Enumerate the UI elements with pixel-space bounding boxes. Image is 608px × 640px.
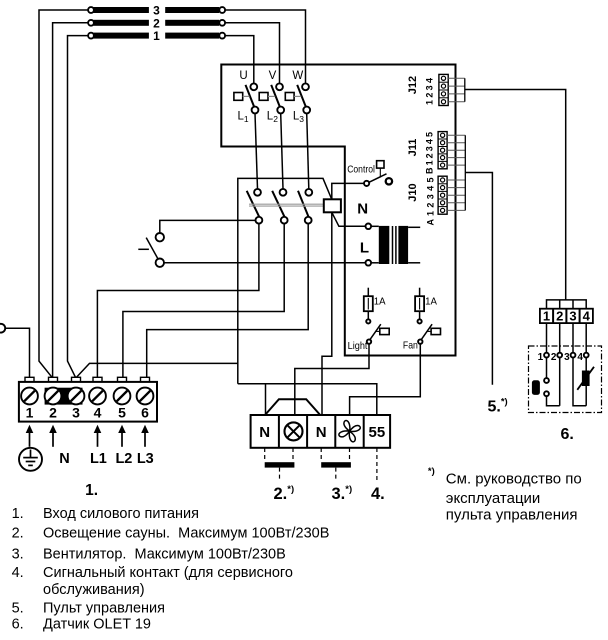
screw terminal 2 — [45, 388, 62, 405]
svg-text:3: 3 — [564, 352, 570, 363]
svg-text:Fan: Fan — [403, 340, 418, 352]
screw terminal 3 — [68, 388, 85, 405]
lamp fixture hood — [265, 399, 320, 415]
svg-text:Освещение сауны. Максимум 100: Освещение сауны. Максимум 100Вт/230В — [43, 526, 329, 542]
input terminal block — [19, 382, 157, 422]
svg-text:N: N — [259, 424, 270, 441]
svg-text:W: W — [292, 70, 303, 82]
light switch — [366, 319, 389, 344]
svg-text:B 1 2 3 4 5: B 1 2 3 4 5 — [425, 132, 435, 174]
wire: coil bottom to output N cell 3 — [322, 212, 332, 415]
N bridge bar terminals 2-3 — [45, 388, 83, 405]
cable bar fan circuit — [321, 462, 351, 467]
wire: coil to control switch — [332, 183, 364, 199]
sensor terminal block 1 2 3 4 — [540, 308, 593, 323]
control switch — [364, 161, 392, 186]
sensor wire 2 — [557, 323, 562, 406]
wire: manual switch to transformer L — [164, 262, 366, 264]
contactor coil K1 — [324, 199, 341, 212]
connector J11 — [438, 132, 447, 169]
svg-text:N: N — [316, 424, 327, 441]
wire: neutral branch to terminal 3 — [77, 363, 238, 377]
svg-text:L2: L2 — [115, 451, 132, 467]
footnote text — [446, 470, 582, 523]
svg-text:N: N — [357, 201, 368, 218]
wire: contactor pole 3 to terminal 6 (L3) — [147, 224, 309, 378]
J11 pin wires — [447, 135, 465, 165]
wire: element 2 right end to breaker V column — [225, 23, 279, 83]
node N terminal — [366, 224, 372, 230]
dashed cable stub cell 2 — [292, 448, 294, 462]
lamp symbol — [285, 422, 303, 440]
sensor wire 4 with thermistor — [584, 323, 589, 406]
transformer T1 — [371, 226, 420, 264]
screw terminal 5 — [114, 388, 131, 405]
svg-text:J11: J11 — [407, 139, 419, 157]
svg-text:V: V — [269, 70, 277, 82]
wire: drop into output N cell 1 — [265, 384, 267, 415]
fan switch — [418, 319, 441, 344]
sensor pin labels — [538, 352, 584, 363]
svg-text:L: L — [360, 240, 369, 257]
wire: fan switch to output fan cell — [350, 344, 421, 415]
svg-text:L3: L3 — [137, 451, 154, 467]
breaker trip linkage square W — [285, 93, 301, 101]
thermistor — [577, 367, 594, 390]
svg-text:5.: 5. — [12, 600, 24, 616]
wire: light switch to output lamp cell — [295, 344, 369, 415]
wire: element 1 right end to breaker U column — [225, 36, 254, 84]
svg-text:эксплуатации: эксплуатации — [446, 490, 541, 507]
svg-text:Пульт управления: Пульт управления — [43, 600, 165, 616]
wire: element 1 left end down to terminal 3 — [68, 36, 89, 378]
breaker trip linkage square U — [234, 93, 250, 101]
svg-text:1: 1 — [538, 352, 544, 363]
svg-text:1 2 3 4: 1 2 3 4 — [424, 78, 434, 105]
wire: element 2 left end down to terminal 2 — [53, 23, 88, 378]
sensor capsule — [532, 380, 540, 395]
svg-text:55: 55 — [369, 424, 386, 441]
svg-text:1: 1 — [543, 308, 550, 323]
svg-text:пульта управления: пульта управления — [446, 507, 578, 524]
wire: coil neutral path around contactor — [238, 178, 332, 383]
breaker pole U — [246, 83, 259, 113]
protective earth symbol — [19, 448, 42, 471]
wire: manual switch to phase L1 pole — [160, 220, 256, 233]
svg-text:1.: 1. — [12, 506, 24, 522]
terminal numbers 1-6 — [26, 405, 150, 421]
svg-text:3: 3 — [72, 405, 80, 421]
J12 pin wires — [448, 78, 465, 101]
fuse F2 1A (fan) — [415, 288, 424, 320]
wire: contactor pole 2 to terminal 5 (L2) — [123, 224, 284, 378]
svg-text:6.: 6. — [12, 617, 24, 633]
svg-text:N: N — [59, 451, 69, 467]
breaker pole V — [271, 83, 284, 113]
dashed cable stub cell 5 — [376, 448, 378, 481]
dashed cable below fan bar — [335, 468, 337, 480]
contactor mechanical linkage bar — [249, 204, 324, 206]
svg-text:2: 2 — [556, 308, 563, 323]
svg-text:2: 2 — [49, 405, 57, 421]
svg-text:6: 6 — [141, 405, 149, 421]
arrow terminal 5 — [118, 425, 126, 447]
heating element 1 — [88, 29, 225, 43]
svg-text:A 1 2 3 4 5: A 1 2 3 4 5 — [426, 178, 436, 226]
terminal tabs — [25, 377, 150, 382]
svg-text:Light: Light — [348, 340, 368, 352]
wire manifold to sensor connector — [547, 300, 587, 309]
arrow terminal 4 — [94, 425, 102, 447]
control unit enclosure box — [221, 65, 455, 356]
node L terminal — [366, 260, 372, 266]
svg-text:Control: Control — [347, 164, 375, 175]
svg-text:4.: 4. — [12, 565, 24, 581]
sensor dashed enclosure — [529, 346, 602, 413]
wire: contactor pole 1 to terminal 4 (L1) — [97, 224, 259, 378]
svg-text:Вход силового питания: Вход силового питания — [43, 506, 199, 522]
svg-text:2.: 2. — [12, 526, 24, 542]
screw terminal 1 — [21, 388, 38, 405]
svg-text:5: 5 — [118, 405, 126, 421]
svg-text:J10: J10 — [407, 183, 419, 201]
heating element 2 — [88, 16, 225, 30]
heating element 3 — [88, 4, 225, 18]
arrow terminal 2 — [49, 425, 57, 447]
legend list — [12, 506, 330, 633]
arrow terminal 1 — [26, 425, 34, 447]
breaker pole W — [297, 83, 310, 113]
breaker trip linkage square V — [259, 93, 275, 101]
contactor pole 3 — [298, 189, 312, 224]
svg-text:1.: 1. — [85, 482, 98, 499]
dashed cable below lamp bar — [279, 468, 281, 480]
svg-text:J12: J12 — [407, 76, 419, 94]
svg-text:См. руководство по: См. руководство по — [446, 470, 582, 487]
contactor pole 2 — [272, 189, 287, 224]
connector J12 — [439, 74, 448, 105]
supply cable plug symbol — [0, 324, 5, 333]
fuse F1 1A (light) — [364, 288, 373, 320]
svg-text:1: 1 — [26, 405, 34, 421]
manual switch S1 — [138, 233, 164, 267]
dashed cable stub cell 4 — [349, 448, 351, 462]
svg-text:Вентилятор. Максимум 100Вт/23: Вентилятор. Максимум 100Вт/230В — [43, 547, 286, 563]
sensor wire 1 with thermal fuse — [544, 323, 560, 406]
svg-text:4: 4 — [94, 405, 102, 421]
wire: neutral bus to output N and 55 — [238, 384, 377, 415]
svg-text:Датчик OLET 19: Датчик OLET 19 — [43, 617, 151, 633]
svg-text:1A: 1A — [374, 297, 386, 308]
svg-text:*): *) — [428, 466, 435, 477]
contactor pole 1 — [247, 189, 263, 224]
svg-text:обслуживания): обслуживания) — [43, 582, 145, 598]
output terminal block — [251, 415, 391, 448]
svg-text:1: 1 — [153, 29, 160, 43]
dashed cable stub cell 3 — [320, 448, 322, 462]
cable bar lamp circuit — [265, 462, 295, 467]
svg-text:Сигнальный контакт (для сервис: Сигнальный контакт (для сервисного — [43, 565, 293, 581]
wire: breaker L2 to contactor pole 2 — [281, 113, 283, 188]
svg-text:1A: 1A — [425, 297, 437, 308]
sensor wire 3 — [571, 323, 587, 406]
arrow terminal 6 — [141, 425, 149, 447]
screw terminal 6 — [137, 388, 154, 405]
dashed cable stub cell 1 — [264, 448, 266, 462]
svg-text:3.: 3. — [12, 547, 24, 563]
svg-text:U: U — [239, 70, 247, 82]
wire: J11/J10 to control panel — [465, 173, 492, 385]
svg-text:3: 3 — [569, 308, 576, 323]
wire: J12 to sensor OLET 19 — [465, 90, 566, 300]
svg-text:L1: L1 — [90, 451, 107, 467]
svg-text:6.: 6. — [561, 426, 574, 443]
connector J10 — [438, 176, 447, 214]
wire: breaker L1 to contactor pole 1 — [255, 113, 258, 188]
wire: coil junction to N terminal — [332, 212, 366, 226]
svg-text:4.: 4. — [371, 485, 385, 503]
fan symbol — [338, 420, 361, 443]
wire: element 3 left end down to terminal 2 — [39, 10, 88, 377]
svg-text:4: 4 — [577, 352, 583, 363]
wire: plug to terminal 1 — [5, 328, 29, 377]
wire: element 3 right end to breaker W column — [225, 10, 305, 83]
svg-text:2: 2 — [551, 352, 557, 363]
wire: breaker L3 to contactor pole 3 — [307, 113, 309, 188]
J10 pin wires — [447, 135, 465, 210]
svg-text:4: 4 — [583, 308, 591, 323]
screw terminal 4 — [89, 388, 106, 405]
